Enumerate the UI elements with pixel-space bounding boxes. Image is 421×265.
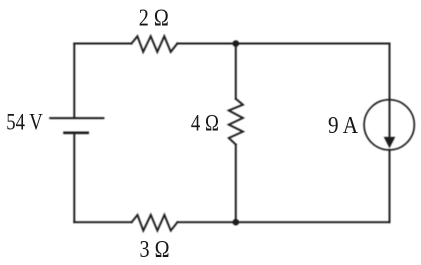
battery 54V: long positive plate xyxy=(49,117,104,119)
wire: middle branch lower stub, 4-ohm resistor to bottom node xyxy=(235,145,237,223)
svg-text:54 V: 54 V xyxy=(6,110,43,135)
wire: top middle, from 2-ohm resistor to top node xyxy=(177,43,236,45)
wire: left vertical lower, from battery - plate to bottom-left corner xyxy=(73,134,75,223)
battery 54V: short negative plate xyxy=(63,131,89,134)
current source 9A: arrowhead (downward) xyxy=(384,137,396,148)
wire: bottom right, from bottom node to right corner xyxy=(236,221,390,223)
resistor 4-ohm (middle branch, vertical) xyxy=(229,99,243,145)
wire: bottom middle, from 3-ohm resistor to bottom node xyxy=(177,221,235,223)
svg-text:4 Ω: 4 Ω xyxy=(191,111,219,137)
current source 9A: circle xyxy=(364,100,414,150)
svg-text:2 Ω: 2 Ω xyxy=(139,5,169,31)
svg-text:9 A: 9 A xyxy=(328,113,359,139)
wire: top-left horizontal, from left corner to 2-ohm resistor xyxy=(74,43,131,45)
node: bottom junction dot xyxy=(233,219,240,226)
wire: bottom-left horizontal, from left corner to 3-ohm resistor xyxy=(74,221,131,223)
svg-text:3 Ω: 3 Ω xyxy=(140,237,170,263)
wire: right vertical upper, top-right corner into current source (arrow shaft) xyxy=(389,44,391,139)
wire: top right, from top node to right corner xyxy=(236,43,390,45)
wire: middle branch upper stub, top node to 4-ohm resistor xyxy=(235,44,237,99)
wire: left vertical upper, from top-left corner to battery + plate xyxy=(73,44,75,118)
resistor 2-ohm (top branch) xyxy=(132,36,178,52)
wire: right vertical lower, current source to bottom-right corner xyxy=(389,150,391,222)
node: top junction dot xyxy=(233,40,240,47)
resistor 3-ohm (bottom branch) xyxy=(132,215,178,231)
